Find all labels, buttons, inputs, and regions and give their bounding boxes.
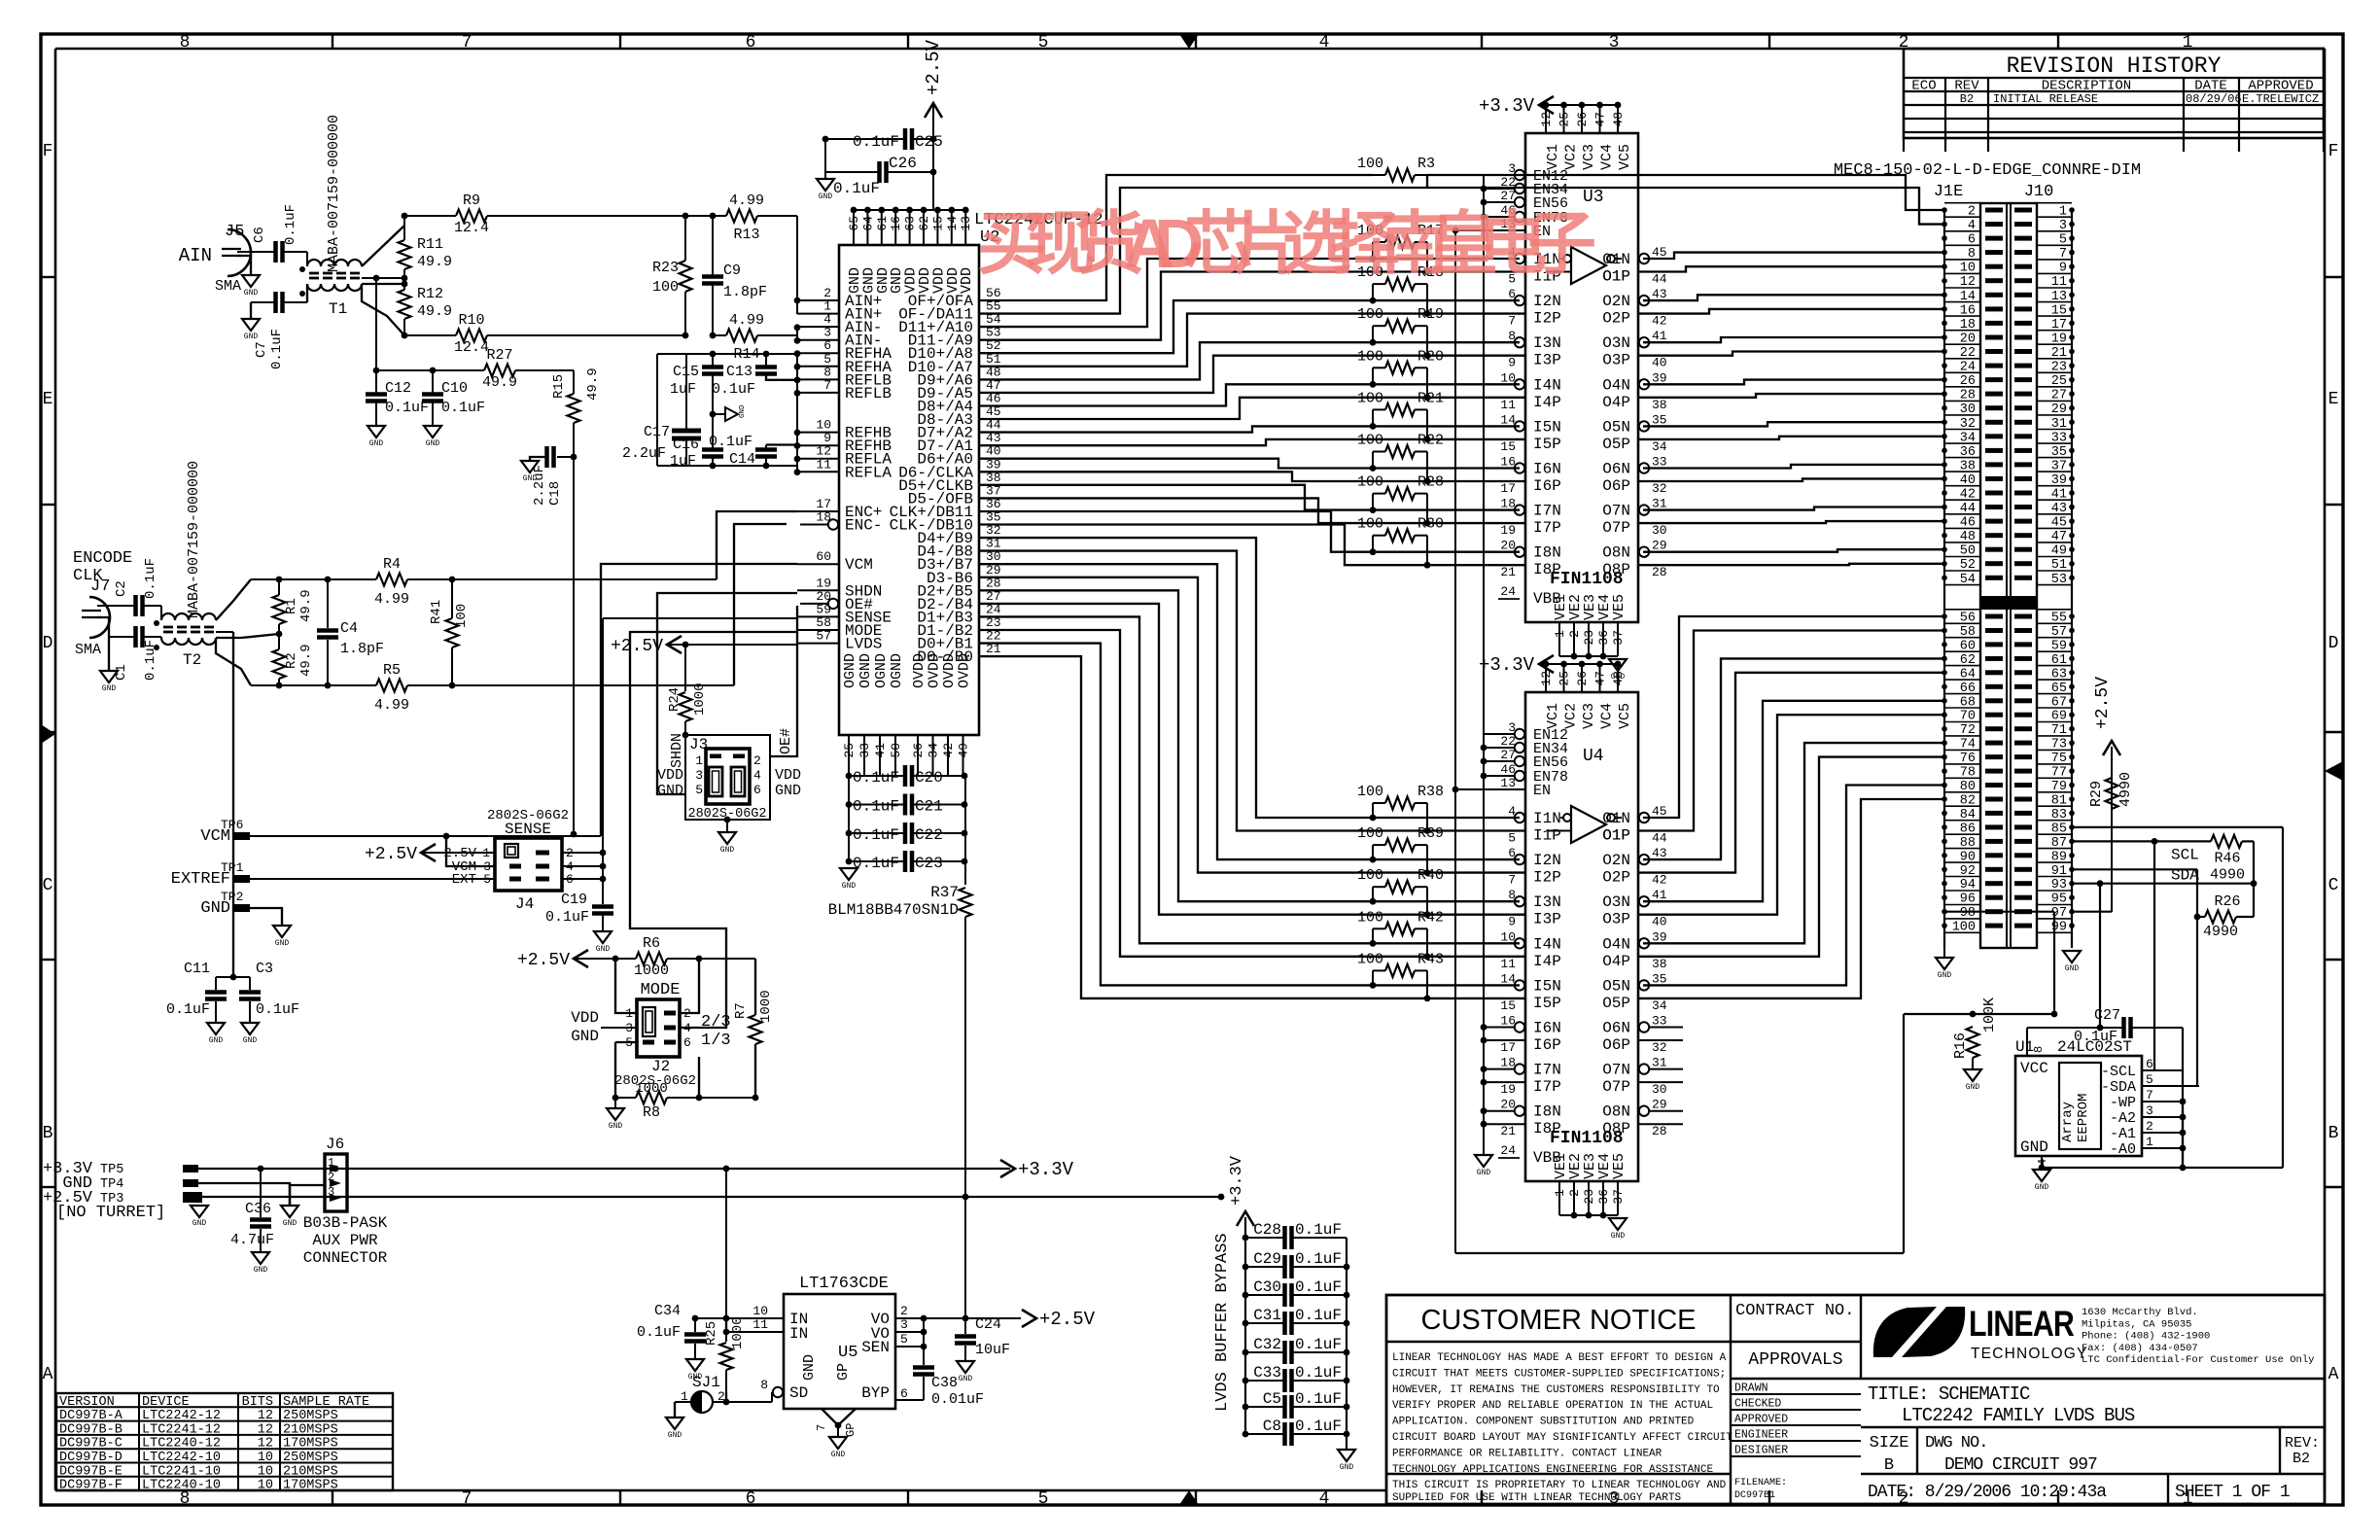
svg-text:30: 30 bbox=[1652, 1082, 1667, 1097]
svg-text:1000: 1000 bbox=[634, 962, 669, 979]
svg-text:36: 36 bbox=[1596, 630, 1611, 646]
wire pair U2 pin to U4 I4N bbox=[979, 616, 1520, 943]
svg-text:LINEAR: LINEAR bbox=[1969, 1304, 2074, 1345]
J5 ground stub bbox=[237, 256, 251, 275]
svg-text:GND: GND bbox=[243, 1036, 258, 1045]
svg-text:GND: GND bbox=[801, 1354, 818, 1381]
J4 right pins to C19 bbox=[562, 852, 603, 854]
svg-text:47: 47 bbox=[1593, 112, 1608, 127]
svg-text:GND: GND bbox=[2065, 964, 2080, 973]
svg-text:GND: GND bbox=[2020, 1138, 2048, 1156]
svg-text:I3N: I3N bbox=[1533, 893, 1561, 911]
svg-text:O6N: O6N bbox=[1602, 1020, 1630, 1037]
svg-text:ENCODE: ENCODE bbox=[73, 549, 132, 568]
wire pair U2 pin to U3 I8P bbox=[979, 525, 1525, 566]
svg-text:VC4: VC4 bbox=[1599, 144, 1616, 170]
svg-text:GND: GND bbox=[609, 1122, 623, 1131]
svg-text:R11: R11 bbox=[417, 236, 443, 253]
svg-text:1uF: 1uF bbox=[670, 381, 696, 398]
svg-text:GND: GND bbox=[819, 192, 833, 201]
svg-text:GND: GND bbox=[2035, 1183, 2049, 1192]
svg-text:F: F bbox=[2328, 142, 2339, 161]
svg-text:1: 1 bbox=[1553, 1189, 1567, 1197]
svg-text:4: 4 bbox=[1508, 804, 1516, 819]
svg-text:O8N: O8N bbox=[1602, 544, 1630, 562]
svg-text:18: 18 bbox=[816, 510, 831, 525]
resistor R28 100 bbox=[1385, 487, 1415, 500]
svg-text:35: 35 bbox=[1652, 412, 1667, 427]
bus bottom junction wires bbox=[1455, 1252, 1904, 1254]
svg-text:CHECKED: CHECKED bbox=[1734, 1398, 1781, 1411]
svg-text:DC997B-D: DC997B-D bbox=[59, 1451, 122, 1465]
svg-text:VDD: VDD bbox=[959, 267, 975, 294]
svg-text:LT1763CDE: LT1763CDE bbox=[799, 1275, 889, 1293]
wire U4 O3P to J1E bbox=[1638, 715, 1944, 915]
svg-text:12: 12 bbox=[258, 1437, 273, 1452]
resistor R23 100 bbox=[682, 213, 689, 220]
resistor R10 12.4 bbox=[404, 334, 456, 336]
wire connector row 98 to R16 node bbox=[1944, 911, 2054, 913]
svg-text:65: 65 bbox=[847, 216, 861, 231]
svg-text:1.8pF: 1.8pF bbox=[340, 641, 384, 657]
wire U3 O4P to J1E bbox=[1638, 394, 1944, 398]
svg-text:-A1: -A1 bbox=[2110, 1126, 2136, 1142]
wire pair U2 pin to U3 I4P bbox=[979, 398, 1525, 419]
svg-text:BYP: BYP bbox=[861, 1384, 890, 1402]
capacitor C19 0.1uF bbox=[592, 904, 613, 909]
svg-text:22: 22 bbox=[1500, 734, 1516, 749]
svg-text:6: 6 bbox=[2146, 1057, 2153, 1071]
wire U3 O2P to J1E bbox=[1638, 309, 1944, 314]
svg-text:BITS: BITS bbox=[242, 1395, 273, 1410]
+2.5V net label for LVDS/R24 bbox=[667, 636, 682, 653]
svg-text:11: 11 bbox=[1500, 398, 1516, 412]
svg-text:VC3: VC3 bbox=[1581, 144, 1597, 170]
svg-text:4.99: 4.99 bbox=[729, 312, 764, 329]
svg-text:B2: B2 bbox=[1960, 92, 1974, 106]
svg-text:C9: C9 bbox=[723, 262, 741, 279]
svg-text:46: 46 bbox=[1500, 762, 1516, 777]
svg-text:0.1uF: 0.1uF bbox=[269, 329, 285, 369]
svg-text:O6N: O6N bbox=[1602, 461, 1630, 478]
svg-text:4.7uF: 4.7uF bbox=[230, 1232, 274, 1248]
svg-text:23: 23 bbox=[1582, 1189, 1596, 1205]
svg-text:5: 5 bbox=[900, 1332, 908, 1347]
svg-text:CIRCUIT THAT MEETS CUSTOMER-SU: CIRCUIT THAT MEETS CUSTOMER-SUPPLIED SPE… bbox=[1392, 1368, 1726, 1380]
capacitor C9 1.8pF bbox=[710, 213, 717, 220]
wire U4 O5P to J1E bbox=[1638, 799, 1944, 998]
svg-text:6: 6 bbox=[900, 1386, 908, 1401]
svg-text:+2.5V: +2.5V bbox=[2093, 677, 2113, 729]
wire U4 O1N to J1E bbox=[1643, 616, 1944, 818]
svg-text:C26: C26 bbox=[889, 155, 917, 172]
capacitor C31 0.1uF bbox=[1245, 1322, 1283, 1324]
svg-text:+2.5V: +2.5V bbox=[517, 951, 570, 970]
resistor R46 4990 bbox=[2211, 835, 2242, 848]
svg-text:45: 45 bbox=[1652, 245, 1667, 260]
svg-text:REFLA: REFLA bbox=[845, 464, 892, 481]
svg-text:R3: R3 bbox=[1417, 156, 1435, 172]
svg-text:SCL: SCL bbox=[2171, 846, 2199, 863]
svg-text:R9: R9 bbox=[463, 192, 480, 209]
svg-text:47: 47 bbox=[1593, 671, 1608, 686]
svg-text:10: 10 bbox=[258, 1464, 273, 1479]
svg-text:SEN: SEN bbox=[861, 1339, 890, 1356]
svg-text:170MSPS: 170MSPS bbox=[283, 1437, 338, 1452]
svg-text:MABA-007159-000000: MABA-007159-000000 bbox=[186, 461, 202, 618]
resistor R17 100 bbox=[1385, 236, 1415, 249]
wire U3 O4N to J1E bbox=[1643, 380, 1944, 385]
resistor R18 100 bbox=[1385, 278, 1415, 291]
svg-text:GND: GND bbox=[1611, 1232, 1626, 1241]
svg-text:CUSTOMER NOTICE: CUSTOMER NOTICE bbox=[1420, 1305, 1696, 1336]
svg-text:29: 29 bbox=[1652, 539, 1667, 553]
svg-text:0.1uF: 0.1uF bbox=[1295, 1390, 1342, 1408]
wire EXTREF to J4 bbox=[250, 878, 495, 880]
svg-text:53: 53 bbox=[2051, 573, 2067, 587]
wire GND label to J2 pin5 / R8 bbox=[615, 1041, 637, 1043]
wire pair U2 pin to U3 I5P bbox=[979, 439, 1525, 445]
svg-text:33: 33 bbox=[1652, 1014, 1667, 1029]
svg-text:39: 39 bbox=[1652, 370, 1667, 385]
svg-text:D: D bbox=[2328, 634, 2339, 653]
svg-text:I2N: I2N bbox=[1533, 293, 1561, 310]
svg-text:24: 24 bbox=[1500, 1143, 1516, 1158]
svg-text:I2N: I2N bbox=[1533, 852, 1561, 869]
wire pair U2 pin to U4 I1N bbox=[979, 538, 1520, 818]
svg-text:VC2: VC2 bbox=[1563, 144, 1580, 170]
U3 EN bus verticals bbox=[1483, 175, 1485, 789]
svg-text:DC997B-F: DC997B-F bbox=[59, 1479, 122, 1493]
svg-text:8: 8 bbox=[1508, 329, 1516, 343]
svg-text:U5: U5 bbox=[838, 1344, 857, 1362]
svg-text:61: 61 bbox=[875, 216, 890, 231]
wire U4 O4P to J1E bbox=[1638, 757, 1944, 957]
svg-text:FILENAME:: FILENAME: bbox=[1734, 1478, 1787, 1488]
svg-text:14: 14 bbox=[1500, 412, 1516, 427]
wire pair U2 pin to U4 I4P bbox=[979, 630, 1525, 957]
svg-text:10: 10 bbox=[258, 1479, 273, 1493]
wire vcm node row bbox=[376, 369, 484, 371]
svg-text:VC5: VC5 bbox=[1617, 703, 1633, 729]
svg-text:C6: C6 bbox=[252, 227, 267, 243]
svg-text:GND: GND bbox=[1966, 1083, 1980, 1092]
svg-text:I5N: I5N bbox=[1533, 977, 1561, 995]
resistor R43 100 bbox=[1385, 964, 1415, 977]
wire pair U2 pin to U3 I7P bbox=[979, 498, 1525, 523]
svg-text:0.1uF: 0.1uF bbox=[1295, 1417, 1342, 1435]
svg-text:0.1uF: 0.1uF bbox=[143, 558, 158, 599]
svg-text:MABA-007159-000000: MABA-007159-000000 bbox=[326, 115, 342, 272]
svg-text:7: 7 bbox=[815, 1424, 828, 1431]
wire U3 O3P to J1E bbox=[1638, 352, 1944, 356]
svg-text:E.TRELEWICZ: E.TRELEWICZ bbox=[2242, 92, 2319, 106]
svg-text:1000: 1000 bbox=[692, 682, 708, 716]
svg-text:买现货AD芯片选择南皇电子: 买现货AD芯片选择南皇电子 bbox=[977, 206, 1596, 283]
svg-text:8: 8 bbox=[2032, 1046, 2046, 1053]
wire U3 O1P to J1E bbox=[1638, 266, 1944, 271]
svg-text:O1P: O1P bbox=[1602, 268, 1630, 286]
svg-text:VDD: VDD bbox=[571, 1009, 599, 1027]
svg-text:-SDA: -SDA bbox=[2101, 1079, 2136, 1096]
wire U3 O6P to J1E bbox=[1638, 478, 1944, 481]
svg-text:C7: C7 bbox=[254, 341, 269, 358]
svg-text:I4N: I4N bbox=[1533, 935, 1561, 953]
resistor R5 4.99 bbox=[251, 684, 376, 686]
wire J10 pin85 to eeprom rail bbox=[2072, 826, 2283, 828]
svg-text:32: 32 bbox=[1652, 1040, 1667, 1055]
svg-text:TP6: TP6 bbox=[221, 818, 243, 832]
svg-text:O6P: O6P bbox=[1602, 1036, 1630, 1054]
resistor R27 49.9 bbox=[484, 365, 515, 377]
resistor R24 1000 bbox=[684, 645, 686, 691]
svg-text:6: 6 bbox=[746, 1489, 756, 1509]
capacitor C13 0.1uF bbox=[765, 354, 767, 366]
U5 left pins bbox=[725, 1169, 727, 1318]
svg-text:VCM: VCM bbox=[845, 556, 873, 574]
svg-text:LTC2242-12: LTC2242-12 bbox=[142, 1409, 221, 1423]
svg-text:100: 100 bbox=[652, 279, 679, 296]
svg-text:16: 16 bbox=[1500, 455, 1516, 470]
resistor R6 1000 bbox=[636, 953, 667, 965]
svg-text:VC5: VC5 bbox=[1617, 144, 1633, 170]
wire pair U2 pin to U3 I2P bbox=[979, 314, 1525, 367]
svg-text:DESIGNER: DESIGNER bbox=[1734, 1445, 1788, 1457]
svg-text:Fax: (408) 434-0507: Fax: (408) 434-0507 bbox=[2082, 1343, 2198, 1354]
svg-text:4: 4 bbox=[1319, 1489, 1330, 1509]
svg-text:C3: C3 bbox=[256, 961, 273, 977]
wire U3 O8P to J1E bbox=[1638, 564, 1944, 565]
wire pair U2 pin to U4 I5N bbox=[979, 644, 1520, 986]
svg-text:12.4: 12.4 bbox=[454, 220, 489, 236]
svg-text:5: 5 bbox=[483, 872, 491, 887]
resistor R42 100 bbox=[1385, 923, 1415, 935]
capacitor C17 2.2uF bbox=[685, 354, 687, 430]
svg-text:VC4: VC4 bbox=[1599, 703, 1616, 729]
svg-text:APPLICATION. COMPONENT SUBSTIT: APPLICATION. COMPONENT SUBSTITUTION AND … bbox=[1392, 1417, 1695, 1428]
U3 top pins VC1-VC5 +3.3V bbox=[1539, 96, 1554, 114]
svg-text:DC997B-C: DC997B-C bbox=[59, 1437, 122, 1452]
svg-text:8: 8 bbox=[760, 1378, 768, 1392]
svg-text:C30: C30 bbox=[1253, 1278, 1281, 1296]
capacitor C3 0.1uF bbox=[249, 977, 251, 990]
U3 EN pins bbox=[1515, 170, 1524, 180]
wire pair U2 pin to U3 I4N bbox=[979, 384, 1520, 405]
resistor R19 100 bbox=[1385, 320, 1415, 332]
wire U4 O5N to J1E bbox=[1643, 786, 1944, 986]
svg-text:GND: GND bbox=[739, 404, 747, 418]
svg-text:4990: 4990 bbox=[2203, 924, 2238, 940]
TP2 gnd stub bbox=[250, 908, 282, 926]
wire U4 O2P to J1E bbox=[1638, 673, 1944, 873]
svg-text:OGND: OGND bbox=[873, 653, 890, 688]
svg-text:21: 21 bbox=[1500, 565, 1516, 579]
svg-text:R38: R38 bbox=[1417, 784, 1444, 800]
svg-text:B: B bbox=[1884, 1456, 1894, 1475]
svg-text:8: 8 bbox=[1508, 888, 1516, 902]
svg-text:54: 54 bbox=[1960, 573, 1976, 587]
wire MODE U2 to J2 pin4 bbox=[630, 632, 797, 1028]
svg-text:16: 16 bbox=[889, 216, 903, 231]
svg-text:34: 34 bbox=[1652, 439, 1667, 454]
svg-text:7: 7 bbox=[1508, 314, 1516, 329]
svg-text:2: 2 bbox=[753, 753, 761, 768]
svg-text:O7N: O7N bbox=[1602, 503, 1630, 520]
svg-text:0.1uF: 0.1uF bbox=[853, 769, 899, 787]
svg-text:210MSPS: 210MSPS bbox=[283, 1464, 338, 1479]
svg-text:R39: R39 bbox=[1417, 825, 1444, 842]
svg-text:-A0: -A0 bbox=[2110, 1141, 2136, 1158]
wire pair U2 pin to U4 I3N bbox=[979, 590, 1520, 901]
svg-text:4.99: 4.99 bbox=[374, 591, 409, 608]
svg-text:42: 42 bbox=[1652, 873, 1667, 888]
svg-text:23: 23 bbox=[1582, 630, 1596, 646]
svg-text:20: 20 bbox=[1500, 1098, 1516, 1112]
svg-text:GND: GND bbox=[959, 1375, 973, 1383]
svg-text:R15: R15 bbox=[551, 374, 567, 399]
svg-text:I8N: I8N bbox=[1533, 1103, 1561, 1121]
svg-text:VC3: VC3 bbox=[1581, 703, 1597, 729]
svg-text:GND: GND bbox=[369, 439, 384, 448]
svg-text:C13: C13 bbox=[726, 364, 752, 380]
svg-text:39: 39 bbox=[1652, 929, 1667, 944]
svg-text:6: 6 bbox=[753, 783, 761, 797]
svg-text:A: A bbox=[2328, 1365, 2339, 1384]
svg-text:ECO: ECO bbox=[1911, 79, 1936, 94]
svg-text:I7N: I7N bbox=[1533, 1062, 1561, 1079]
svg-text:33: 33 bbox=[857, 743, 872, 758]
svg-text:CONNECTOR: CONNECTOR bbox=[303, 1249, 388, 1267]
svg-text:42: 42 bbox=[941, 743, 956, 758]
svg-text:41: 41 bbox=[1652, 329, 1667, 343]
svg-text:VE5: VE5 bbox=[1611, 1153, 1627, 1179]
svg-text:14: 14 bbox=[945, 216, 960, 231]
svg-text:31: 31 bbox=[1652, 497, 1667, 511]
resistor R39 100 bbox=[1385, 839, 1415, 852]
U2 left pins bbox=[797, 299, 839, 301]
wire U4 O2N to J1E bbox=[1643, 658, 1944, 859]
wire pair U2 pin to U3 I3N bbox=[979, 342, 1520, 379]
svg-text:SHEET 1 OF 1: SHEET 1 OF 1 bbox=[2175, 1483, 2290, 1502]
svg-text:C23: C23 bbox=[915, 855, 943, 872]
resistor R30 100 bbox=[1385, 529, 1415, 542]
svg-text:TITLE: SCHEMATIC: TITLE: SCHEMATIC bbox=[1868, 1383, 2030, 1405]
svg-text:O2N: O2N bbox=[1602, 852, 1630, 869]
svg-text:OGND: OGND bbox=[857, 653, 874, 688]
resistor R9 12.4 bbox=[404, 215, 456, 217]
svg-text:DC997B1: DC997B1 bbox=[1734, 1490, 1775, 1501]
svg-text:1/3: 1/3 bbox=[701, 1032, 731, 1050]
svg-text:13: 13 bbox=[959, 216, 973, 231]
svg-text:VC2: VC2 bbox=[1563, 703, 1580, 729]
resistor R7 1000 bbox=[754, 959, 756, 1015]
svg-text:26: 26 bbox=[1575, 671, 1590, 686]
svg-text:APPROVALS: APPROVALS bbox=[1748, 1350, 1842, 1370]
J2 gnd bbox=[614, 1098, 616, 1108]
svg-text:SJ1: SJ1 bbox=[692, 1374, 720, 1391]
svg-text:4.99: 4.99 bbox=[729, 192, 764, 209]
svg-text:R1: R1 bbox=[284, 598, 299, 614]
svg-text:Array: Array bbox=[2060, 1102, 2076, 1142]
svg-text:J4: J4 bbox=[515, 895, 534, 913]
svg-text:OGND: OGND bbox=[889, 653, 905, 688]
svg-text:0.1uF: 0.1uF bbox=[1295, 1307, 1342, 1324]
svg-text:GND: GND bbox=[596, 945, 611, 954]
svg-text:30: 30 bbox=[1652, 523, 1667, 538]
svg-text:O2P: O2P bbox=[1602, 869, 1630, 887]
wire R6 into J2 pin1 bbox=[615, 959, 637, 1013]
svg-text:3: 3 bbox=[695, 768, 703, 783]
T2 secondary wires bbox=[216, 579, 251, 620]
wire VCC stub to U1 pin8 bbox=[2027, 1027, 2100, 1029]
wire pair U2 pin to U3 I1N bbox=[979, 259, 1520, 327]
svg-text:27: 27 bbox=[1500, 748, 1516, 762]
IC U2 LTC2242CUP-12 body bbox=[839, 245, 979, 735]
svg-text:I3P: I3P bbox=[1533, 911, 1561, 928]
svg-text:49.9: 49.9 bbox=[482, 374, 517, 391]
svg-text:R4: R4 bbox=[383, 556, 401, 573]
svg-text:I2P: I2P bbox=[1533, 310, 1561, 328]
svg-text:5: 5 bbox=[1508, 831, 1516, 846]
svg-text:B03B-PASK: B03B-PASK bbox=[303, 1214, 388, 1232]
svg-text:O3P: O3P bbox=[1602, 911, 1630, 928]
svg-text:R23: R23 bbox=[652, 260, 679, 276]
ref mid gnd bbox=[710, 411, 717, 418]
capacitor C2 0.1uF bbox=[97, 605, 134, 607]
svg-text:U3: U3 bbox=[1583, 188, 1604, 207]
svg-text:VERSION: VERSION bbox=[59, 1395, 115, 1410]
svg-text:3: 3 bbox=[1508, 720, 1516, 735]
svg-text:GND: GND bbox=[668, 1431, 682, 1440]
svg-text:1000: 1000 bbox=[730, 1316, 746, 1349]
wire VDD label to J2 pin3 bbox=[601, 1027, 637, 1029]
svg-text:O5P: O5P bbox=[1602, 995, 1630, 1012]
svg-text:0.1uF: 0.1uF bbox=[712, 381, 755, 398]
wire U3 O7P to J1E bbox=[1638, 521, 1944, 523]
svg-text:R29: R29 bbox=[2088, 781, 2105, 807]
svg-text:LTC2240-12: LTC2240-12 bbox=[142, 1437, 221, 1452]
svg-text:31: 31 bbox=[1652, 1056, 1667, 1070]
capacitor C27 0.1uF bbox=[2099, 884, 2101, 1028]
svg-text:I8P: I8P bbox=[1533, 1120, 1561, 1137]
resistor R41 100 bbox=[449, 577, 456, 583]
svg-text:EN: EN bbox=[1533, 783, 1551, 799]
svg-text:I6N: I6N bbox=[1533, 1020, 1561, 1037]
svg-text:27: 27 bbox=[1500, 189, 1516, 203]
wire R16 row bbox=[1904, 1013, 2054, 1015]
svg-text:R2: R2 bbox=[284, 652, 299, 669]
svg-text:-SCL: -SCL bbox=[2101, 1064, 2136, 1080]
svg-text:7: 7 bbox=[462, 33, 472, 52]
svg-text:6: 6 bbox=[1508, 846, 1516, 860]
svg-text:SHDN: SHDN bbox=[669, 733, 685, 768]
resistor R1 49.9 bbox=[278, 579, 280, 595]
svg-text:R40: R40 bbox=[1417, 867, 1444, 884]
svg-text:O8P: O8P bbox=[1602, 561, 1630, 578]
svg-text:C2: C2 bbox=[114, 580, 129, 597]
wire U3 O5P to J1E bbox=[1638, 437, 1944, 439]
svg-text:21: 21 bbox=[1500, 1124, 1516, 1138]
svg-text:0.1uF: 0.1uF bbox=[545, 909, 589, 926]
svg-text:41: 41 bbox=[1652, 888, 1667, 902]
svg-text:100: 100 bbox=[1357, 784, 1383, 800]
svg-text:C14: C14 bbox=[729, 451, 755, 468]
svg-text:3: 3 bbox=[900, 1317, 908, 1332]
svg-text:O8P: O8P bbox=[1602, 1120, 1630, 1137]
IC U4 FIN1108 body bbox=[1525, 692, 1638, 1181]
svg-text:-A2: -A2 bbox=[2110, 1110, 2136, 1127]
wire VCM net bbox=[250, 835, 601, 837]
